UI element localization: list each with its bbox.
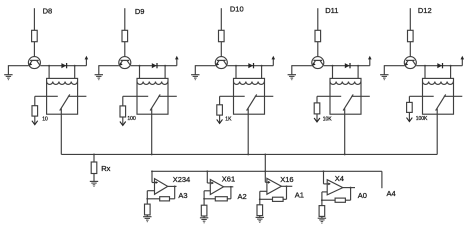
svg-text:D12: D12 <box>418 6 432 15</box>
wire collector rail <box>131 65 177 67</box>
wire emitter to ground <box>292 65 312 67</box>
wire feedback left <box>260 198 273 200</box>
wire feedback left <box>322 199 335 201</box>
wire - input to feedback node <box>321 192 323 206</box>
relay K3 box <box>234 78 265 114</box>
resistor base R5 <box>408 30 414 41</box>
wire output <box>343 187 355 189</box>
ground (emitter Q2) <box>95 75 103 80</box>
wire emitter to ground <box>99 65 119 67</box>
node junction amp tap <box>264 153 266 155</box>
diode D2 flyback <box>152 63 157 68</box>
diode D5 flyback <box>437 63 442 68</box>
node junction coil right <box>450 65 452 67</box>
wire resistor to arrow <box>316 114 318 122</box>
svg-text:X61: X61 <box>222 175 235 184</box>
wire coil left lead <box>424 66 426 79</box>
wire - input to feedback node <box>203 191 205 205</box>
wire coil left lead <box>139 66 141 79</box>
wire emitter to ground <box>8 65 28 67</box>
relay K1 coil <box>47 82 78 85</box>
relay K2 box <box>137 78 168 114</box>
op-amp U3 (X16) <box>267 178 282 194</box>
wire feedback left <box>147 198 159 200</box>
wire resistor to ground <box>259 216 261 218</box>
resistor ground leg U4 <box>319 206 325 217</box>
svg-text:D9: D9 <box>135 7 145 16</box>
down arrow terminal <box>32 121 38 125</box>
down arrow terminal <box>217 119 223 123</box>
ground (emitter Q4) <box>288 75 296 80</box>
ground (U2 leg) <box>200 218 208 223</box>
down arrow terminal <box>120 122 126 126</box>
wire - input <box>204 190 210 192</box>
transistor Q1 <box>28 57 40 69</box>
wire D8 input lead <box>33 8 35 30</box>
svg-text:1K: 1K <box>225 117 232 123</box>
node junction coil left <box>332 65 334 67</box>
wire relay common to bus <box>247 114 249 154</box>
wire output <box>224 186 234 188</box>
relay K5 coil <box>423 82 454 85</box>
wire coil left lead <box>235 66 237 79</box>
wire resistor to arrow <box>219 115 221 123</box>
power arrow VCC <box>175 56 179 66</box>
wire emitter to ground <box>384 65 404 67</box>
diode D4 flyback <box>345 63 350 68</box>
amp input rail wire <box>152 170 382 172</box>
wire output <box>168 185 177 187</box>
resistor 1K shunt <box>217 105 223 115</box>
resistor 10K shunt <box>314 103 320 114</box>
wire emitter to ground <box>195 65 215 67</box>
node junction Rx tap <box>93 153 95 155</box>
wire relay common to bus <box>436 114 438 154</box>
node junction output feedback <box>350 187 352 189</box>
node junction rail tap <box>151 170 153 172</box>
transistor Q2 <box>119 57 131 69</box>
wire + input stub <box>324 183 330 185</box>
ground (emitter Q1) <box>4 75 12 80</box>
resistor ground leg U3 <box>257 205 263 216</box>
wire coil right lead <box>261 66 263 79</box>
node junction rail tap <box>206 170 208 172</box>
svg-text:100K: 100K <box>416 116 428 122</box>
relay K2 coil <box>137 82 168 85</box>
diode D1 flyback <box>61 63 66 68</box>
resistor ground leg U2 <box>201 205 207 216</box>
resistor ground leg U1 <box>145 204 151 215</box>
ground (emitter Q3) <box>191 75 199 80</box>
op-amp U2 (X61) <box>210 180 223 195</box>
resistor feedback U2 <box>215 197 227 201</box>
wire collector rail <box>227 65 273 67</box>
relay K5 switch right contact <box>444 95 463 97</box>
wire coil left lead <box>48 66 50 79</box>
wire resistor to ground <box>203 216 205 218</box>
svg-text:X4: X4 <box>335 174 344 183</box>
resistor feedback U4 <box>335 198 345 202</box>
wire bus to Rx <box>93 154 95 162</box>
node junction ch4 drop <box>344 153 346 155</box>
ground (emitter Q5) <box>380 75 388 80</box>
node junction coil left <box>235 65 237 67</box>
wire - input to feedback node <box>146 191 148 204</box>
op-amp U4 (X4) <box>327 180 343 195</box>
wire collector rail <box>40 65 86 67</box>
relay K5 switch blade <box>436 94 446 110</box>
wire coil left lead <box>332 66 334 79</box>
wire contact to shunt resistor <box>219 96 221 105</box>
wire feedback right <box>345 199 350 201</box>
relay K1 switch right contact <box>68 95 87 97</box>
resistor 100 shunt <box>120 106 126 117</box>
wire + input stub <box>265 181 269 183</box>
node junction ch2 drop <box>151 153 153 155</box>
svg-text:Rx: Rx <box>101 164 110 173</box>
wire Rx to ground <box>93 174 95 182</box>
wire contact to shunt resistor <box>122 96 124 106</box>
svg-text:100: 100 <box>127 116 136 122</box>
relay K4 box <box>330 78 361 114</box>
wire resistor to transistor <box>317 42 319 57</box>
wire collector rail <box>416 65 462 67</box>
wire rail to + input <box>264 171 266 182</box>
wire resistor to ground <box>146 215 148 217</box>
wire resistor to ground <box>321 216 323 218</box>
node junction coil right <box>261 65 263 67</box>
down arrow terminal <box>407 118 413 122</box>
relay K3 switch right contact <box>255 95 273 97</box>
wire + input stub <box>152 182 157 184</box>
svg-text:X234: X234 <box>173 175 191 184</box>
wire D12 input lead <box>409 8 411 30</box>
relay K3 switch left contact <box>220 95 245 97</box>
svg-text:A0: A0 <box>358 191 367 200</box>
resistor base R2 <box>122 30 128 41</box>
relay K4 coil <box>330 82 361 85</box>
power arrow VCC <box>272 56 276 66</box>
wire coil right lead <box>74 66 76 79</box>
svg-text:10K: 10K <box>323 117 333 123</box>
power arrow VCC <box>368 56 372 66</box>
svg-text:A1: A1 <box>295 190 304 199</box>
wire output <box>281 185 292 187</box>
wire coil right lead <box>450 66 452 79</box>
resistor base R1 <box>32 30 38 41</box>
ground (U3 leg) <box>256 217 264 222</box>
relay K3 switch blade <box>247 94 257 110</box>
resistor 10 shunt <box>32 106 38 116</box>
svg-text:10: 10 <box>42 116 48 122</box>
relay K3 coil <box>234 82 265 85</box>
relay K1 box <box>47 78 78 114</box>
svg-text:D11: D11 <box>325 6 338 15</box>
wire - input to feedback node <box>259 191 261 205</box>
relay K4 switch blade <box>343 94 353 110</box>
wire - input <box>322 191 327 193</box>
resistor 100K shunt <box>407 102 413 112</box>
resistor base R4 <box>315 30 321 41</box>
wire bus tap to amp rail <box>264 154 266 171</box>
op-amp U1 (X234) <box>155 179 168 195</box>
svg-text:A2: A2 <box>238 192 247 201</box>
down arrow terminal <box>314 118 320 122</box>
resistor feedback U3 <box>273 197 284 201</box>
wire resistor to transistor <box>220 42 222 57</box>
wire resistor to arrow <box>34 116 36 124</box>
node junction feedback <box>259 198 261 200</box>
wire feedback right <box>283 198 286 200</box>
node junction feedback <box>321 199 323 201</box>
node junction feedback <box>203 198 205 200</box>
resistor Rx <box>91 162 97 174</box>
svg-text:D10: D10 <box>230 4 244 13</box>
resistor feedback U1 <box>160 197 170 201</box>
wire rail to + input <box>151 171 153 182</box>
transistor Q4 <box>312 57 324 69</box>
node junction coil left <box>139 65 141 67</box>
wire rail to + input <box>206 171 208 183</box>
svg-text:X16: X16 <box>280 175 293 184</box>
resistor base R3 <box>219 30 225 41</box>
relay K4 switch left contact <box>317 95 341 97</box>
wire contact to shunt resistor <box>34 96 36 105</box>
bus wire (common measurement rail) <box>61 153 437 155</box>
diode D3 flyback <box>248 63 253 68</box>
wire rail to A4 terminal <box>381 171 383 188</box>
wire relay common to bus <box>344 114 346 154</box>
wire rail to + input <box>323 171 325 184</box>
relay K2 switch right contact <box>158 95 177 97</box>
wire resistor to transistor <box>124 42 126 57</box>
node junction output feedback <box>286 185 288 187</box>
power arrow VCC <box>461 56 465 66</box>
node junction coil right <box>164 65 166 67</box>
node junction coil right <box>74 65 76 67</box>
node junction coil left <box>424 65 426 67</box>
node junction rail tap <box>323 170 325 172</box>
wire feedback right <box>170 198 175 200</box>
wire contact to shunt resistor <box>408 96 410 102</box>
relay K5 box <box>423 78 454 114</box>
node junction ch3 drop <box>247 153 249 155</box>
wire contact to shunt resistor <box>316 96 318 103</box>
wire resistor to arrow <box>122 117 124 125</box>
node junction coil right <box>357 65 359 67</box>
wire D9 input lead <box>124 8 126 30</box>
wire - input <box>147 190 154 192</box>
ground (U1 leg) <box>143 217 151 222</box>
svg-text:D8: D8 <box>43 7 53 16</box>
svg-text:A4: A4 <box>387 189 396 198</box>
relay K2 switch blade <box>150 94 160 110</box>
relay K4 switch right contact <box>351 95 370 97</box>
node junction coil left <box>48 65 50 67</box>
transistor Q3 <box>215 57 227 69</box>
wire coil right lead <box>164 66 166 79</box>
wire + input stub <box>207 182 213 184</box>
wire coil right lead <box>357 66 359 79</box>
wire resistor to transistor <box>409 42 411 57</box>
relay K1 switch left contact <box>35 95 58 97</box>
wire D11 input lead <box>317 8 319 30</box>
node junction feedback <box>146 198 148 200</box>
transistor Q5 <box>404 57 416 69</box>
wire feedback left <box>204 198 215 200</box>
node junction output feedback <box>230 186 232 188</box>
relay K2 switch left contact <box>123 95 148 97</box>
wire feedback right <box>227 198 231 200</box>
ground (U4 leg) <box>318 218 326 223</box>
wire resistor to arrow <box>408 112 410 121</box>
wire relay common to bus <box>151 114 153 154</box>
ground (Rx) <box>90 181 98 186</box>
node junction rail tap <box>264 170 266 172</box>
relay K1 switch blade <box>60 94 70 110</box>
node junction output feedback <box>174 185 176 187</box>
power arrow VCC <box>85 56 89 66</box>
wire D10 input lead <box>220 8 222 30</box>
wire collector rail <box>324 65 370 67</box>
wire - input <box>260 190 267 192</box>
relay K5 switch left contact <box>409 95 433 97</box>
wire resistor to transistor <box>33 42 35 57</box>
wire relay common to bus <box>60 114 62 154</box>
svg-text:A3: A3 <box>178 191 187 200</box>
